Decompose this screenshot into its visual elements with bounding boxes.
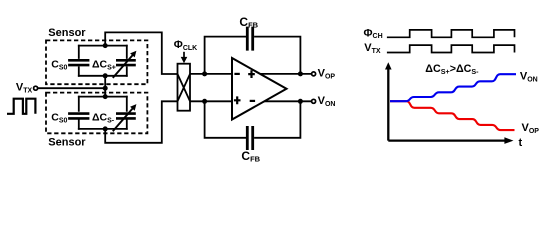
sensor top: right branch wire (dC_S+)	[126, 46, 128, 76]
wire bottom sensor bottom rail to chopper (bottom route)	[105, 101, 177, 143]
svg-text:ΔCS+>ΔCS-: ΔCS+>ΔCS-	[425, 63, 479, 76]
node dot: bottom output junction	[298, 99, 303, 104]
curve V_ON (blue staircase up)	[390, 74, 516, 101]
chopper box	[178, 64, 191, 111]
sensor top: parallel network rails	[79, 46, 127, 76]
variable capacitor arrow (top sensor)	[113, 51, 137, 78]
variable capacitor arrow (bottom sensor)	[113, 104, 137, 131]
svg-text:Sensor: Sensor	[48, 27, 86, 39]
op-amp U1 triangle	[232, 58, 287, 120]
wire bottom feedback loop	[205, 101, 301, 138]
op-amp input plus (bottom-left)	[234, 96, 241, 104]
waveform V_TX square wave	[387, 45, 515, 52]
capacitor C_FB (bottom) plates	[247, 126, 252, 150]
wire top sensor top rail to chopper (top route)	[105, 32, 177, 74]
terminal V_OP (open circle)	[312, 72, 316, 76]
wire V_TX input to mid node	[38, 87, 106, 89]
graph x-axis	[388, 139, 505, 141]
sensor bottom: parallel network rails	[79, 97, 127, 129]
wire chopper to op-amp bottom input	[190, 100, 232, 102]
Phi_CLK arrow	[183, 52, 185, 58]
node dot: top sensor top rail	[103, 43, 108, 48]
node dot: bottom sensor bottom rail	[103, 126, 108, 131]
terminal V_TX (open circle)	[34, 86, 38, 90]
node dot: bottom sensor top rail	[103, 94, 108, 99]
svg-text:Sensor: Sensor	[48, 137, 86, 149]
curve V_OP (red staircase down)	[390, 101, 515, 130]
node dot: V_TX junction	[103, 86, 108, 91]
sensor top: left branch wire (C_S0)	[78, 46, 80, 76]
capacitor C_FB (top) plates	[247, 27, 252, 51]
node dot: top feedback tap	[202, 71, 207, 76]
sensor bottom: right branch wire (dC_S-)	[126, 97, 128, 129]
sensor bottom: left branch wire (C_S0)	[78, 97, 80, 129]
svg-text:t: t	[519, 137, 523, 149]
capacitor C_S0 (bottom) plates	[68, 114, 89, 119]
V_TX square-wave symbol	[7, 99, 35, 114]
dashed box sensor (top)	[46, 40, 147, 84]
wire mid vertical through sensors (V_TX node)	[104, 76, 106, 97]
graph y-axis	[387, 69, 389, 141]
node dot: top sensor bottom rail	[103, 73, 108, 78]
capacitor C_S0 (top) plates	[68, 60, 89, 65]
capacitor dC_S+ (top, variable) plates	[116, 60, 136, 65]
op-amp input minus (top-left)	[234, 73, 239, 75]
wire chopper to op-amp top input	[190, 73, 232, 75]
wire op-amp bottom output to V_ON terminal	[258, 100, 312, 102]
capacitor dC_S- (bottom, variable) plates	[116, 114, 136, 119]
node dot: bottom feedback tap	[202, 99, 207, 104]
op-amp internal plus (top)	[248, 70, 255, 78]
wire top feedback loop	[205, 37, 301, 74]
op-amp internal minus (bottom)	[250, 100, 255, 102]
waveform Phi_CH square wave	[387, 30, 515, 37]
dashed box sensor (bottom)	[46, 93, 147, 134]
chopper X	[178, 74, 191, 101]
wire op-amp top output to V_OP terminal	[258, 73, 312, 75]
terminal V_ON (open circle)	[312, 99, 316, 103]
node dot: top output junction	[298, 71, 303, 76]
